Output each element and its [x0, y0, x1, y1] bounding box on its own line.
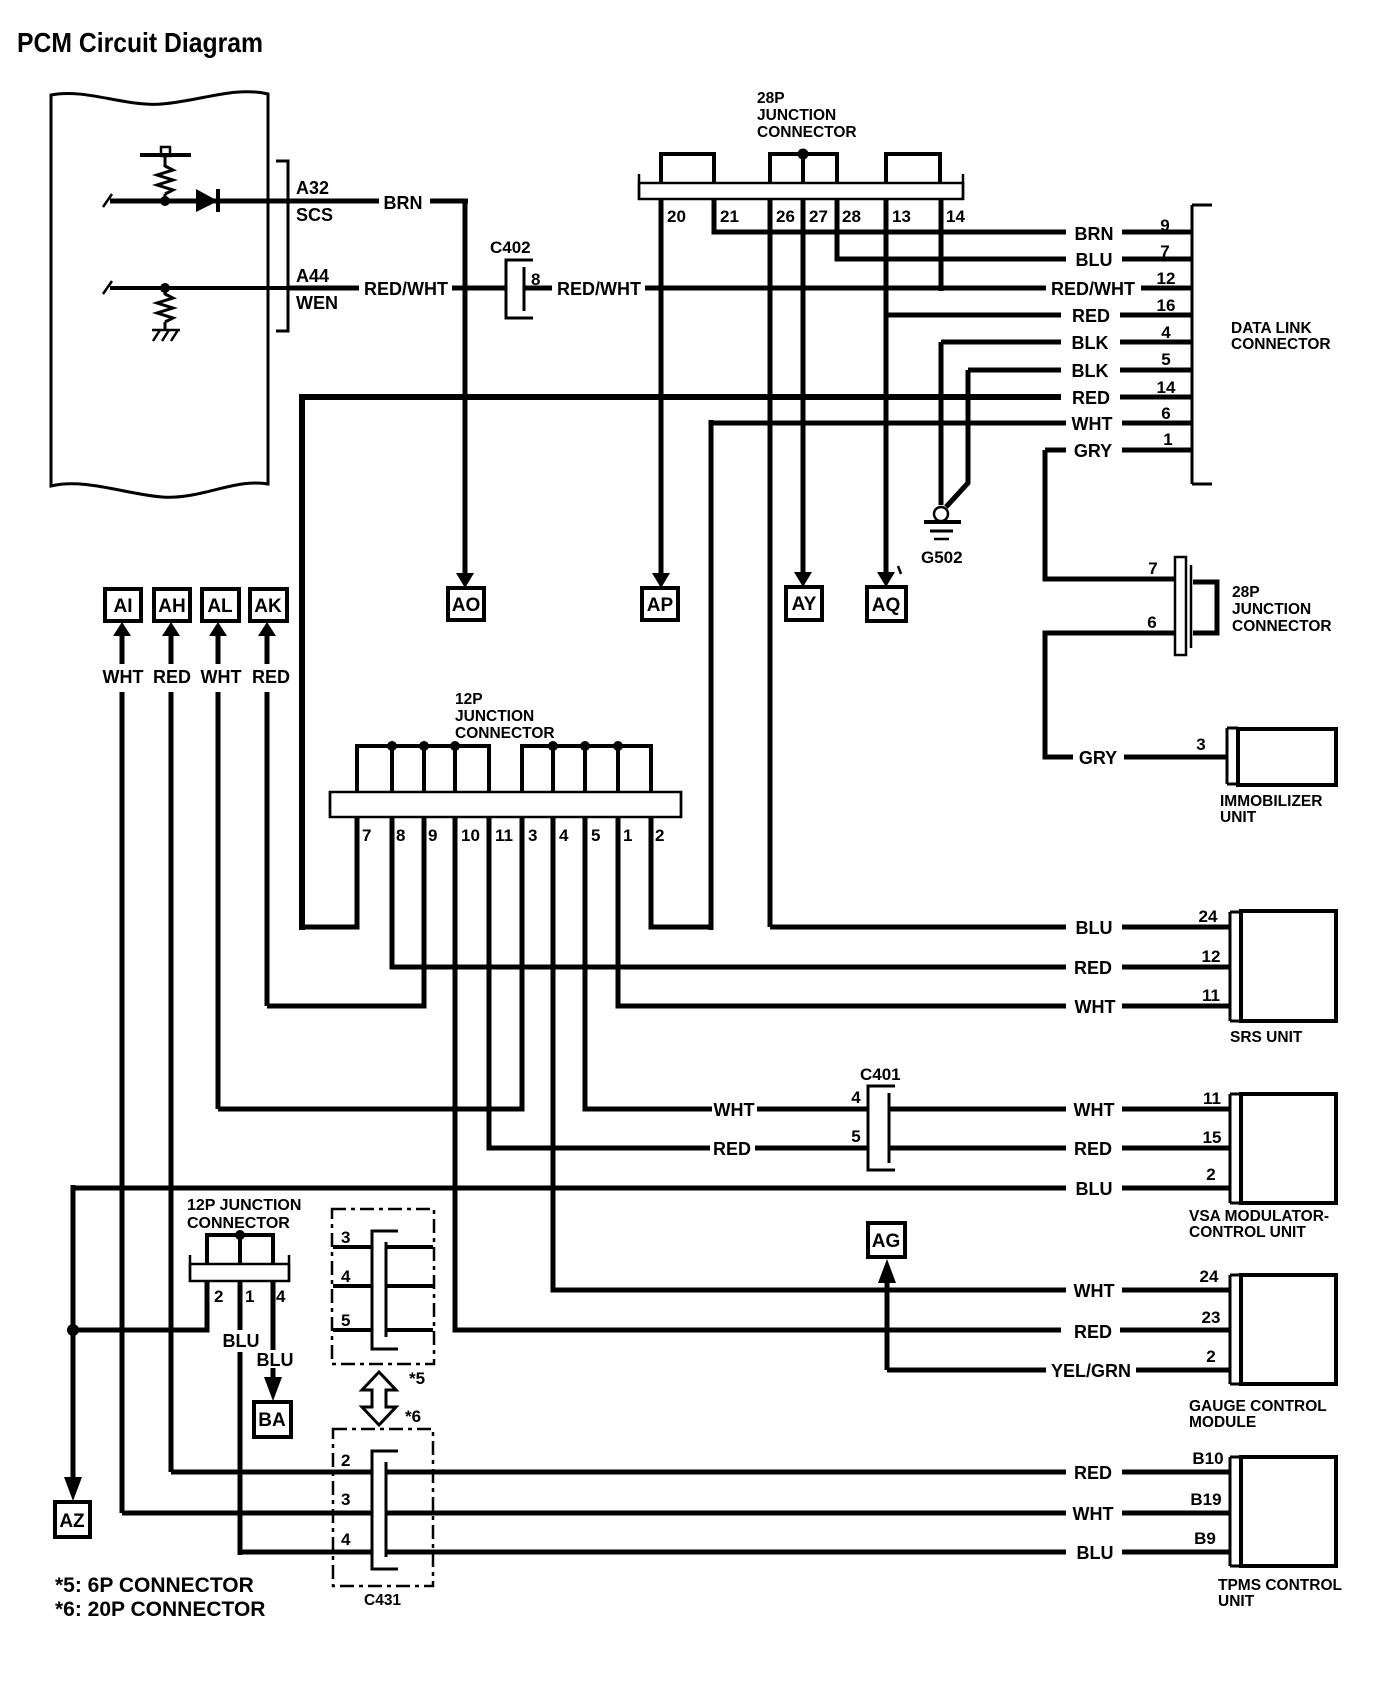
label WHT (VSA 11)	[1074, 1100, 1115, 1120]
label WHT (DLC 6)	[1072, 414, 1113, 434]
box AI	[105, 589, 141, 621]
svg-text:13: 13	[892, 207, 911, 226]
wire BLU to VSA 2	[73, 1186, 1230, 1191]
arrow into AL	[209, 622, 227, 664]
wire pin2 lower link	[73, 1281, 207, 1330]
label DATA LINK CONNECTOR	[1231, 320, 1331, 353]
wire BLK2 to ground	[946, 370, 968, 507]
svg-text:12P: 12P	[455, 691, 483, 708]
data link connector bracket	[1192, 205, 1212, 484]
label GAUGE CONTROL MODULE	[1189, 1398, 1327, 1431]
svg-text:C401: C401	[860, 1065, 901, 1084]
arrow into AH	[162, 622, 180, 664]
wire pin28 to BLU row	[837, 199, 1192, 259]
wire YEL/GRN to GAUGE 2	[887, 1368, 1230, 1373]
svg-text:GRY: GRY	[1074, 441, 1112, 461]
svg-text:JUNCTION: JUNCTION	[455, 708, 534, 725]
svg-text:1: 1	[245, 1287, 254, 1306]
bridge pins 20-21	[661, 154, 714, 184]
svg-text:7: 7	[1148, 559, 1157, 578]
svg-text:4: 4	[559, 826, 569, 845]
pin 4 label (*6)	[341, 1530, 351, 1549]
12P junction connector bar	[330, 791, 681, 818]
box AK	[250, 589, 287, 621]
wire pin9 to AK	[267, 817, 424, 1006]
svg-text:4: 4	[1161, 323, 1171, 342]
svg-text:BRN: BRN	[384, 193, 423, 213]
svg-text:RED: RED	[1072, 388, 1110, 408]
pin 8 label C402	[531, 270, 540, 289]
svg-text:7: 7	[362, 826, 371, 845]
arrow into AI	[113, 622, 131, 664]
label RED/WHT left	[364, 279, 448, 299]
label BLU (SRS 24)	[1076, 918, 1113, 938]
svg-text:3: 3	[1196, 735, 1205, 754]
connector C401	[868, 1086, 895, 1170]
svg-text:GAUGE CONTROL: GAUGE CONTROL	[1189, 1398, 1327, 1415]
6P connector box (*5)	[332, 1209, 434, 1364]
svg-text:CONNECTOR: CONNECTOR	[187, 1215, 290, 1232]
svg-text:WEN: WEN	[296, 293, 338, 313]
svg-text:1: 1	[623, 826, 632, 845]
svg-text:B9: B9	[1194, 1529, 1216, 1548]
label SRS UNIT	[1230, 1029, 1303, 1046]
pin label A32/SCS	[296, 178, 333, 225]
svg-text:24: 24	[1199, 907, 1218, 926]
mating arrow	[362, 1372, 396, 1425]
GAUGE connector bracket	[1230, 1275, 1241, 1384]
svg-text:BLK: BLK	[1072, 333, 1109, 353]
wire RED/WHT to DLC	[941, 286, 1192, 291]
svg-text:5: 5	[591, 826, 600, 845]
svg-text:GRY: GRY	[1079, 748, 1117, 768]
svg-text:UNIT: UNIT	[1218, 1593, 1255, 1610]
svg-text:RED: RED	[1074, 958, 1112, 978]
wire AI down	[120, 692, 125, 1513]
wire JC 6 to GRY	[1045, 633, 1227, 757]
nodes right bridge	[548, 741, 623, 751]
node bridge 27	[798, 149, 809, 160]
label YEL/GRN (GAUGE 2)	[1051, 1361, 1131, 1381]
pin 3 row (*5)	[333, 1228, 433, 1247]
svg-text:2: 2	[1206, 1165, 1215, 1184]
wire pin26 down	[768, 199, 773, 927]
box AO	[448, 588, 484, 620]
svg-text:WHT: WHT	[714, 1100, 755, 1120]
resistor R1	[157, 166, 173, 201]
svg-text:IMMOBILIZER: IMMOBILIZER	[1220, 793, 1322, 810]
svg-text:4: 4	[851, 1088, 861, 1107]
wire AL down	[216, 692, 221, 1109]
svg-text:RED: RED	[1074, 1463, 1112, 1483]
svg-text:AL: AL	[207, 596, 233, 617]
svg-text:12P JUNCTION: 12P JUNCTION	[187, 1197, 301, 1214]
svg-text:RED/WHT: RED/WHT	[1051, 279, 1135, 299]
pin 16 label DLC	[1157, 296, 1176, 315]
svg-text:2: 2	[1206, 1347, 1215, 1366]
connector C431 (*5 face)	[372, 1231, 398, 1349]
svg-text:14: 14	[946, 207, 965, 226]
wire pin3 to AL	[218, 817, 522, 1109]
svg-text:*6: 20P CONNECTOR: *6: 20P CONNECTOR	[55, 1598, 265, 1621]
svg-text:RED: RED	[153, 667, 191, 687]
wire BLK to DLC 5	[968, 368, 1192, 373]
pin label A44/WEN	[296, 266, 338, 313]
pin 4 row (*5)	[333, 1267, 433, 1286]
svg-text:TPMS CONTROL: TPMS CONTROL	[1218, 1577, 1342, 1594]
svg-text:26: 26	[776, 207, 795, 226]
pin 11 label SRS	[1202, 986, 1220, 1005]
label GRY (DLC 1)	[1074, 441, 1112, 461]
svg-text:WHT: WHT	[1072, 414, 1113, 434]
pin 6 label JC right	[1147, 613, 1156, 632]
label *5	[409, 1369, 425, 1388]
wire AI to TPMS B19	[122, 1511, 1230, 1516]
svg-text:RED: RED	[1072, 306, 1110, 326]
label VSA MODULATOR-CONTROL UNIT	[1189, 1208, 1329, 1241]
bridge pins 7-11	[357, 746, 489, 793]
svg-text:14: 14	[1157, 378, 1176, 397]
pin B9 label	[1194, 1529, 1216, 1548]
pin 7 label JC right	[1148, 559, 1157, 578]
pin 14 label DLC	[1157, 378, 1176, 397]
box AP	[642, 588, 678, 620]
SRS connector bracket	[1230, 912, 1241, 1021]
nodes left bridge	[387, 741, 460, 751]
label G502	[921, 548, 963, 567]
pin 9 label DLC	[1160, 216, 1169, 235]
wire RED/WHT A44 to C402	[288, 286, 506, 291]
28P junction connector bar	[639, 174, 963, 200]
power tap bar	[140, 147, 191, 167]
svg-text:5: 5	[851, 1127, 860, 1146]
svg-text:28P: 28P	[757, 90, 785, 107]
svg-text:AI: AI	[114, 596, 133, 617]
pin 23 label GAUGE	[1202, 1308, 1221, 1327]
wire RED to DLC 16	[886, 313, 1192, 318]
node A44 tap	[160, 283, 170, 293]
12P junction connector label	[455, 691, 555, 742]
svg-text:BLU: BLU	[1077, 1543, 1114, 1563]
svg-text:RED: RED	[1074, 1139, 1112, 1159]
pin B19 label	[1190, 1490, 1221, 1509]
box AH	[154, 589, 190, 621]
node junction AZ	[67, 1324, 79, 1336]
label WHT (AL)	[201, 667, 242, 687]
svg-text:BA: BA	[258, 1410, 286, 1431]
svg-text:C431: C431	[364, 1592, 401, 1609]
label WHT (SRS 11)	[1075, 997, 1116, 1017]
label C401	[860, 1065, 901, 1084]
svg-text:12: 12	[1157, 269, 1176, 288]
svg-text:SRS UNIT: SRS UNIT	[1230, 1029, 1303, 1046]
label BRN (DLC 9)	[1075, 224, 1114, 244]
svg-text:11: 11	[1202, 986, 1220, 1005]
label RED (C401 left)	[713, 1139, 751, 1159]
wire BRN from A32	[288, 199, 468, 204]
svg-text:11: 11	[1203, 1089, 1221, 1108]
wire pin4 lower to BA	[271, 1281, 276, 1377]
label RED (GAUGE 23)	[1074, 1322, 1112, 1342]
svg-text:CONNECTOR: CONNECTOR	[455, 725, 555, 742]
bridge pins 13-14	[886, 154, 940, 184]
wire AK down	[265, 692, 270, 1006]
svg-text:4: 4	[341, 1530, 351, 1549]
label WHT (GAUGE 24)	[1074, 1281, 1115, 1301]
svg-text:YEL/GRN: YEL/GRN	[1051, 1361, 1131, 1381]
svg-text:PCM Circuit Diagram: PCM Circuit Diagram	[17, 27, 263, 58]
pin 1 label DLC	[1163, 430, 1172, 449]
svg-text:21: 21	[720, 207, 739, 226]
wire pin13 to AQ	[884, 199, 889, 576]
label *6	[405, 1407, 421, 1426]
pin labels 28P top	[667, 207, 965, 226]
connector C402	[506, 260, 533, 318]
svg-text:BLU: BLU	[1076, 918, 1113, 938]
svg-text:RED/WHT: RED/WHT	[557, 279, 641, 299]
bridge pins 2-1-4	[207, 1235, 273, 1265]
svg-text:A44: A44	[296, 266, 329, 286]
wire AG riser	[885, 1283, 890, 1370]
label RED/WHT mid	[557, 279, 641, 299]
svg-text:27: 27	[809, 207, 828, 226]
svg-text:MODULE: MODULE	[1189, 1414, 1256, 1431]
node A32 tap	[160, 196, 170, 206]
svg-text:23: 23	[1202, 1308, 1221, 1327]
pin 5 label C401	[851, 1127, 860, 1146]
svg-text:C402: C402	[490, 238, 531, 257]
stray mark	[898, 566, 901, 574]
label BLU (VSA 2)	[1076, 1179, 1113, 1199]
wire pin27 to AY	[801, 199, 806, 576]
arrow into AG	[878, 1259, 896, 1283]
wire A44 internal	[103, 281, 288, 294]
svg-text:12: 12	[1202, 947, 1221, 966]
svg-text:4: 4	[276, 1287, 286, 1306]
svg-text:WHT: WHT	[201, 667, 242, 687]
svg-text:AZ: AZ	[59, 1511, 85, 1532]
wire BLU riser AZ	[71, 1185, 76, 1477]
bridge pins 26-27-28	[770, 154, 837, 184]
svg-text:9: 9	[428, 826, 437, 845]
wire AH down	[169, 692, 174, 1472]
footnote *6	[55, 1598, 265, 1621]
wire AH to TPMS B10	[171, 1470, 1230, 1475]
wire pin8 to SRS 12	[392, 817, 1230, 967]
pin 12 label DLC	[1157, 269, 1176, 288]
pin labels 12P lower	[214, 1287, 286, 1306]
pin 2 label GAUGE	[1206, 1347, 1215, 1366]
svg-text:WHT: WHT	[103, 667, 144, 687]
label WHT (AI)	[103, 667, 144, 687]
IMMOBILIZER connector bracket	[1227, 728, 1238, 784]
12P lower bar	[190, 1255, 289, 1282]
28P junction connector (right) symbol	[1175, 557, 1217, 655]
svg-text:28P: 28P	[1232, 584, 1260, 601]
wire RED to DLC 14	[302, 394, 1192, 400]
svg-text:7: 7	[1160, 242, 1169, 261]
wire pin26 to SRS 24	[770, 925, 1230, 930]
svg-text:*5: 6P CONNECTOR: *5: 6P CONNECTOR	[55, 1574, 254, 1597]
wire RED into C401	[755, 1146, 868, 1151]
pin 24 label SRS	[1199, 907, 1218, 926]
20P connector box (*6)	[333, 1429, 433, 1586]
immobilizer unit box	[1238, 729, 1336, 785]
ground G502 symbol	[924, 507, 961, 539]
box AL	[202, 589, 239, 621]
svg-text:CONNECTOR: CONNECTOR	[1232, 618, 1332, 635]
SRS unit box	[1241, 911, 1336, 1021]
wire pin7 link	[302, 817, 357, 927]
PCM module box	[51, 92, 268, 498]
svg-text:RED/WHT: RED/WHT	[364, 279, 448, 299]
svg-text:RED: RED	[252, 667, 290, 687]
wire BRN vertical to AO	[463, 199, 468, 576]
svg-text:B19: B19	[1190, 1490, 1221, 1509]
svg-text:24: 24	[1200, 1267, 1219, 1286]
GAUGE control module box	[1241, 1275, 1336, 1384]
label BLU (pin1 lower)	[223, 1331, 260, 1351]
pin 24 label GAUGE	[1200, 1267, 1219, 1286]
wire pin1 to SRS 11	[618, 817, 1230, 1006]
label GRY (immobilizer)	[1079, 748, 1117, 768]
svg-text:10: 10	[461, 826, 480, 845]
svg-text:*6: *6	[405, 1407, 421, 1426]
pin 11 label VSA	[1203, 1089, 1221, 1108]
svg-text:AK: AK	[254, 596, 282, 617]
pin 4 label DLC	[1161, 323, 1171, 342]
svg-text:CONNECTOR: CONNECTOR	[757, 124, 857, 141]
svg-text:B10: B10	[1192, 1449, 1223, 1468]
pin 3 label (*6)	[341, 1490, 350, 1509]
pin 12 label SRS	[1202, 947, 1221, 966]
svg-text:15: 15	[1203, 1128, 1222, 1147]
svg-text:SCS: SCS	[296, 205, 333, 225]
pin 15 label VSA	[1203, 1128, 1222, 1147]
wire A32 internal	[103, 194, 288, 207]
wire WHT into C401	[757, 1107, 868, 1112]
svg-text:DATA LINK: DATA LINK	[1231, 320, 1312, 337]
svg-text:2: 2	[214, 1287, 223, 1306]
arrow into AZ	[64, 1477, 82, 1501]
TPMS connector bracket	[1230, 1457, 1241, 1566]
pin B10 label	[1192, 1449, 1223, 1468]
svg-text:AH: AH	[158, 596, 185, 617]
svg-text:WHT: WHT	[1073, 1504, 1114, 1524]
svg-text:4: 4	[341, 1267, 351, 1286]
label TPMS CONTROL UNIT	[1218, 1577, 1342, 1610]
label C431	[364, 1592, 401, 1609]
wire DLC14 riser	[299, 394, 305, 930]
svg-text:JUNCTION: JUNCTION	[1232, 601, 1311, 618]
svg-text:6: 6	[1147, 613, 1156, 632]
diode D1	[196, 189, 218, 212]
svg-text:AG: AG	[872, 1231, 901, 1252]
PCM connector bracket	[276, 161, 288, 331]
svg-text:UNIT: UNIT	[1220, 809, 1257, 826]
label WHT (C401 left)	[714, 1100, 755, 1120]
wire C401 to VSA 15	[889, 1146, 1230, 1151]
svg-text:BLU: BLU	[257, 1350, 294, 1370]
label RED (DLC 16)	[1072, 306, 1110, 326]
label BLU (BA)	[257, 1350, 294, 1370]
VSA unit box	[1241, 1094, 1336, 1203]
title	[17, 27, 263, 58]
label C402	[490, 238, 531, 257]
12P junction connector (lower) label	[187, 1197, 301, 1232]
svg-text:AQ: AQ	[872, 595, 901, 616]
wire pin14 to RED/WHT row	[939, 199, 944, 291]
arrow into AQ	[877, 572, 895, 587]
svg-text:G502: G502	[921, 548, 963, 567]
wire pin21 to BRN row	[714, 199, 1192, 232]
svg-text:2: 2	[341, 1451, 350, 1470]
svg-text:*5: *5	[409, 1369, 425, 1388]
label RED (VSA 15)	[1074, 1139, 1112, 1159]
label RED (TPMS B10)	[1074, 1463, 1112, 1483]
wire pin1 lower to TPMS B9	[238, 1281, 243, 1555]
svg-text:AO: AO	[452, 595, 481, 616]
svg-text:9: 9	[1160, 216, 1169, 235]
arrow into AO	[456, 573, 474, 588]
label RED (DLC 14)	[1072, 388, 1110, 408]
label BLU (TPMS B9)	[1077, 1543, 1114, 1563]
bridge pins 3-2	[522, 746, 651, 793]
svg-text:VSA MODULATOR-: VSA MODULATOR-	[1189, 1208, 1329, 1225]
svg-text:BRN: BRN	[1075, 224, 1114, 244]
pin 3 label immobilizer	[1196, 735, 1205, 754]
wire pin11 to C401 5	[489, 817, 710, 1148]
label RED (AK)	[252, 667, 290, 687]
svg-text:WHT: WHT	[1075, 997, 1116, 1017]
svg-text:AY: AY	[792, 594, 817, 615]
connector C431 (*6 face)	[372, 1451, 398, 1569]
wire RED/WHT C402 to junction	[524, 286, 941, 291]
svg-text:BLU: BLU	[1076, 250, 1113, 270]
label RED (SRS 12)	[1074, 958, 1112, 978]
VSA connector bracket	[1230, 1094, 1241, 1203]
svg-text:16: 16	[1157, 296, 1176, 315]
wire GRY to DLC 1	[1045, 448, 1192, 453]
label RED (AH)	[153, 667, 191, 687]
wire BLK to DLC 4	[941, 340, 1192, 345]
label BRN	[384, 193, 423, 213]
box AG	[868, 1223, 905, 1257]
svg-text:11: 11	[495, 826, 513, 845]
wire pin5 to C401 4	[585, 817, 712, 1109]
svg-text:20: 20	[667, 207, 686, 226]
box AY	[786, 587, 822, 620]
pin labels 12P	[362, 826, 664, 845]
TPMS control unit box	[1241, 1457, 1336, 1566]
label RED/WHT (DLC 12)	[1051, 279, 1135, 299]
label BLK (DLC 5)	[1072, 361, 1109, 381]
arrow into BA	[264, 1377, 282, 1401]
wire pin20 to AP	[659, 199, 664, 576]
svg-text:3: 3	[341, 1490, 350, 1509]
label BLU (DLC 7)	[1076, 250, 1113, 270]
svg-text:RED: RED	[713, 1139, 751, 1159]
pin 5 label DLC	[1161, 350, 1170, 369]
footnote *5	[55, 1574, 254, 1597]
28P junction connector (right) label	[1232, 584, 1332, 635]
wire pin4 to GAUGE 24	[553, 817, 1230, 1290]
svg-text:CONTROL UNIT: CONTROL UNIT	[1189, 1224, 1306, 1241]
resistor R2	[157, 288, 173, 330]
svg-text:JUNCTION: JUNCTION	[757, 107, 836, 124]
pin 2 label (*6)	[341, 1451, 350, 1470]
svg-text:RED: RED	[1074, 1322, 1112, 1342]
